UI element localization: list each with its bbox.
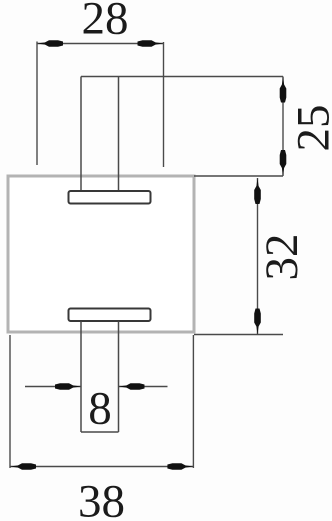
dim 32 line (257, 178, 259, 335)
bottom tab bottom edge (81, 431, 119, 433)
svg-text:25: 25 (288, 105, 332, 152)
dim 8 left leader line (25, 386, 81, 388)
dim 28 left arrow (37, 40, 63, 47)
body top right extension line (194, 175, 283, 177)
dim 25 bottom arrow (280, 150, 287, 176)
top tab right edge wire (118, 77, 120, 191)
top blade slot bar (69, 191, 151, 204)
dim 25 line (282, 77, 284, 177)
bottom blade slot bar (69, 309, 151, 322)
svg-text:38: 38 (78, 476, 125, 521)
dim 28 right extension line (163, 42, 165, 167)
dim 32 bottom arrow (254, 309, 261, 335)
dim 28 line (37, 43, 164, 45)
dim 32 top arrow (254, 178, 261, 204)
top tab left edge wire (80, 77, 82, 191)
dim 28 left extension line (36, 42, 38, 166)
dim 8 right leader line (119, 386, 168, 388)
svg-text:28: 28 (82, 0, 129, 45)
dim 38 left extension line (9, 335, 11, 468)
bottom tab left edge wire (80, 322, 82, 433)
fuse body outline (8, 176, 194, 332)
dim 38 left arrow (10, 463, 36, 470)
dim 8 left arrow (55, 383, 81, 390)
top tab top edge and extension line to 25 dim (81, 76, 283, 78)
svg-text:8: 8 (88, 383, 112, 435)
dim 8 right arrow (119, 383, 145, 390)
dim 38 line (10, 466, 193, 468)
dim 28 right arrow (138, 40, 164, 47)
bottom tab right edge wire (118, 322, 120, 433)
dim 38 right arrow (167, 463, 193, 470)
body bottom right extension line (194, 334, 283, 336)
dim 38 right extension line (192, 335, 194, 468)
dim 25 top arrow (280, 77, 287, 103)
svg-text:32: 32 (256, 234, 308, 281)
